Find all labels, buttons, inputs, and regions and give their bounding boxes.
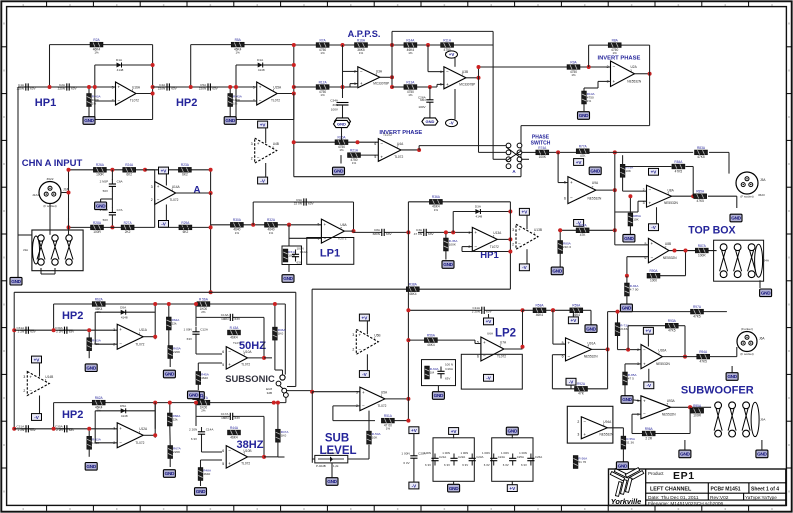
svg-text:(F socket): (F socket) — [740, 352, 753, 356]
svg-text:−: − — [570, 196, 573, 201]
svg-text:2 N5P: 2 N5P — [100, 180, 109, 184]
svg-text:22k: 22k — [173, 418, 178, 422]
svg-text:SUBWOOFER: SUBWOOFER — [681, 385, 754, 397]
svg-text:−: − — [29, 388, 32, 393]
svg-text:2 2N: 2 2N — [18, 330, 25, 334]
svg-text:2: 2 — [23, 389, 25, 393]
svg-text:−: − — [257, 156, 260, 161]
svg-text:R93A: R93A — [668, 319, 677, 323]
svg-text:=: = — [116, 3, 118, 7]
svg-text:46K4: 46K4 — [427, 343, 435, 347]
svg-text:63V: 63V — [69, 428, 75, 432]
svg-text:‖: ‖ — [788, 22, 789, 26]
svg-text:7: 7 — [340, 226, 342, 230]
svg-text:NE5532N: NE5532N — [584, 354, 599, 358]
svg-text:2 2N: 2 2N — [18, 428, 25, 432]
svg-text:5: 5 — [222, 462, 224, 466]
svg-text:TOP BOX: TOP BOX — [688, 224, 735, 236]
svg-text:2 2N: 2 2N — [56, 428, 63, 432]
svg-text:7: 7 — [243, 452, 245, 456]
svg-text:1 00N: 1 00N — [460, 451, 468, 455]
svg-text:Product: Product — [648, 471, 664, 476]
svg-text:HP2: HP2 — [62, 310, 83, 322]
svg-text:+: + — [613, 79, 616, 84]
svg-text:1 00N: 1 00N — [442, 451, 450, 455]
svg-text:=: = — [163, 507, 165, 511]
svg-text:1%: 1% — [233, 102, 238, 106]
svg-text:GND: GND — [196, 489, 206, 494]
svg-text:R78A: R78A — [579, 224, 588, 228]
svg-text:‖: ‖ — [3, 396, 4, 400]
svg-text:6K2: 6K2 — [126, 173, 132, 177]
svg-text:U6A: U6A — [487, 332, 494, 336]
svg-text:+: + — [29, 374, 32, 379]
svg-text:1: 1 — [272, 146, 274, 150]
svg-text:Sheet 1 of 4: Sheet 1 of 4 — [751, 487, 779, 493]
svg-text:2: 2 — [151, 198, 153, 202]
svg-text:J5A: J5A — [760, 178, 766, 182]
svg-text:5: 5 — [318, 223, 320, 227]
svg-text:100 N: 100 N — [445, 363, 453, 367]
svg-text:3: 3 — [577, 433, 579, 437]
svg-text:1K0: 1K0 — [281, 434, 287, 438]
svg-text:−: − — [360, 69, 363, 74]
svg-text:GND: GND — [443, 262, 453, 267]
svg-text:R9A: R9A — [570, 60, 577, 64]
svg-text:R77A: R77A — [579, 145, 588, 149]
svg-text:TL072: TL072 — [135, 441, 144, 445]
svg-text:5: 5 — [222, 363, 224, 367]
svg-text:LP2: LP2 — [495, 328, 516, 340]
svg-text:−: − — [119, 342, 122, 347]
svg-text:1%: 1% — [352, 161, 357, 165]
svg-text:−: − — [568, 354, 571, 359]
svg-text:+: + — [643, 361, 646, 366]
svg-text:GND: GND — [590, 169, 600, 174]
svg-text:=: = — [537, 507, 539, 511]
svg-text:TL072: TL072 — [130, 99, 139, 103]
svg-text:1: 1 — [374, 337, 376, 341]
svg-text:+: + — [228, 362, 231, 367]
svg-text:CHN A INPUT: CHN A INPUT — [22, 158, 83, 169]
svg-text:GND: GND — [579, 113, 589, 118]
svg-text:‖: ‖ — [3, 115, 4, 119]
svg-text:1 00N: 1 00N — [184, 328, 192, 332]
svg-text:TL072: TL072 — [497, 354, 506, 358]
svg-text:=: = — [350, 507, 352, 511]
svg-text:C23A: C23A — [476, 455, 483, 459]
svg-text:1%: 1% — [386, 427, 391, 431]
svg-text:2K2: 2K2 — [125, 230, 131, 234]
svg-text:−: − — [228, 448, 231, 453]
svg-text:1%: 1% — [269, 231, 274, 235]
svg-text:GND: GND — [449, 486, 459, 491]
svg-text:TL072: TL072 — [383, 133, 392, 137]
svg-text:63V: 63V — [308, 201, 314, 205]
svg-text:R29A: R29A — [181, 221, 190, 225]
svg-text:7: 7 — [243, 353, 245, 357]
svg-text:3: 3 — [23, 375, 25, 379]
svg-text:6: 6 — [564, 196, 566, 200]
svg-text:=: = — [69, 507, 71, 511]
svg-text:1: 1 — [171, 188, 173, 192]
svg-text:=: = — [724, 507, 726, 511]
svg-text:C20A: C20A — [418, 452, 427, 456]
svg-text:4148: 4148 — [121, 315, 128, 319]
svg-text:−: − — [228, 349, 231, 354]
svg-text:100R: 100R — [93, 230, 101, 234]
svg-text:100R: 100R — [698, 253, 706, 257]
svg-text:=: = — [69, 3, 71, 7]
svg-text:+V: +V — [34, 357, 41, 362]
svg-text:D5A: D5A — [120, 404, 127, 408]
svg-text:TL072: TL072 — [394, 155, 403, 159]
svg-text:47K: 47K — [580, 154, 587, 158]
svg-text:3623: 3623 — [758, 193, 765, 197]
svg-text:‖: ‖ — [788, 302, 789, 306]
svg-text:6: 6 — [374, 142, 376, 146]
svg-text:(F socket): (F socket) — [740, 195, 753, 199]
svg-text:10K: 10K — [372, 436, 378, 440]
svg-text:−: − — [118, 98, 121, 103]
svg-text:+: + — [570, 180, 573, 185]
svg-text:47K5: 47K5 — [668, 329, 676, 333]
svg-text:R62A: R62A — [95, 297, 104, 301]
svg-text:1M: 1M — [430, 371, 435, 375]
svg-text:1%: 1% — [320, 93, 325, 97]
svg-text:GND: GND — [225, 118, 235, 123]
svg-text:+: + — [518, 227, 521, 232]
svg-text:TL072: TL072 — [490, 245, 499, 249]
svg-text:C25A: C25A — [517, 455, 524, 459]
svg-text:1: 1 — [630, 69, 632, 73]
svg-text:SUBSONIC: SUBSONIC — [225, 373, 275, 384]
svg-text:−: − — [380, 141, 383, 146]
svg-text:1: 1 — [132, 89, 134, 93]
svg-text:3: 3 — [512, 228, 514, 232]
svg-text:47K5: 47K5 — [693, 314, 701, 318]
svg-text:+V: +V — [509, 486, 516, 491]
svg-text:R83A: R83A — [697, 146, 706, 150]
svg-text:R14A: R14A — [406, 38, 415, 42]
svg-text:GND: GND — [761, 291, 771, 296]
svg-text:HP1: HP1 — [35, 97, 56, 109]
svg-text:2: 2 — [577, 420, 579, 424]
svg-text:+: + — [157, 184, 160, 189]
svg-text:GND: GND — [727, 374, 737, 379]
svg-text:R21A: R21A — [350, 149, 359, 153]
svg-text:R94A: R94A — [699, 350, 708, 354]
svg-text:1: 1 — [493, 235, 495, 239]
svg-text:1%: 1% — [587, 99, 592, 103]
svg-text:1%: 1% — [320, 51, 325, 55]
svg-text:50V: 50V — [103, 189, 108, 193]
svg-text:=: = — [163, 3, 165, 7]
svg-text:6K2: 6K2 — [182, 173, 188, 177]
svg-text:51 76: 51 76 — [578, 460, 586, 464]
svg-text:C21A: C21A — [439, 455, 446, 459]
svg-text:2: 2 — [637, 348, 639, 352]
svg-text:Date: Thu Dec 01, 2011: Date: Thu Dec 01, 2011 — [648, 495, 699, 501]
svg-text:1 00N: 1 00N — [501, 451, 509, 455]
svg-text:+: + — [483, 340, 486, 345]
svg-text:+V: +V — [449, 52, 455, 57]
svg-text:3: 3 — [151, 185, 153, 189]
svg-text:Filename: M1451V02SCH.sch2006: Filename: M1451V02SCH.sch2006 — [648, 501, 724, 507]
svg-text:GND: GND — [283, 276, 293, 281]
svg-text:3: 3 — [112, 85, 114, 89]
svg-text:LP1: LP1 — [320, 248, 340, 260]
svg-text:GND: GND — [680, 452, 690, 457]
svg-text:TL072: TL072 — [169, 198, 178, 202]
svg-text:46K4: 46K4 — [536, 313, 544, 317]
svg-text:HP2: HP2 — [62, 409, 83, 421]
svg-text:R51A: R51A — [384, 414, 393, 418]
svg-text:R13A: R13A — [406, 80, 415, 84]
svg-text:R59A: R59A — [572, 304, 581, 308]
svg-text:+V: +V — [576, 160, 583, 165]
svg-text:+V: +V — [260, 122, 267, 127]
svg-text:R 43A: R 43A — [230, 326, 240, 330]
svg-text:‖: ‖ — [788, 349, 789, 353]
svg-text:NE5532N: NE5532N — [662, 412, 677, 416]
svg-text:R11A: R11A — [443, 38, 452, 42]
svg-text:=: = — [584, 507, 586, 511]
svg-text:1K0: 1K0 — [278, 332, 284, 336]
svg-text:47 5: 47 5 — [628, 377, 634, 381]
svg-text:GND: GND — [337, 122, 346, 127]
svg-text:=: = — [22, 3, 24, 7]
svg-text:=: = — [584, 3, 586, 7]
svg-text:=: = — [631, 3, 633, 7]
svg-text:3: 3 — [356, 390, 358, 394]
svg-text:−: − — [259, 98, 262, 103]
svg-text:1 00N: 1 00N — [519, 451, 527, 455]
svg-text:=: = — [210, 507, 212, 511]
svg-text:R5A: R5A — [235, 38, 242, 42]
svg-text:GND: GND — [586, 326, 596, 331]
svg-text:21K 0: 21K 0 — [563, 245, 571, 249]
svg-text:GND: GND — [508, 429, 518, 434]
svg-text:6 3V: 6 3V — [503, 463, 509, 467]
svg-text:J9A: J9A — [760, 417, 766, 421]
svg-text:R24A: R24A — [125, 163, 134, 167]
svg-text:220K: 220K — [173, 350, 181, 354]
svg-text:1: 1 — [658, 352, 660, 356]
svg-text:1%: 1% — [94, 51, 99, 55]
svg-text:‖: ‖ — [788, 162, 789, 166]
svg-text:6K2: 6K2 — [183, 230, 189, 234]
svg-text:+: + — [583, 432, 586, 437]
svg-text:63V: 63V — [187, 337, 192, 341]
svg-text:J2A4: J2A4 — [32, 193, 39, 197]
svg-text:GND: GND — [189, 393, 199, 398]
svg-text:−: − — [323, 236, 326, 241]
svg-text:‖: ‖ — [3, 209, 4, 213]
svg-text:3: 3 — [253, 85, 255, 89]
svg-text:R 56A: R 56A — [199, 297, 209, 301]
svg-text:=: = — [256, 507, 258, 511]
svg-text:R58A: R58A — [536, 304, 545, 308]
svg-text:−: − — [613, 64, 616, 69]
svg-text:2 2N: 2 2N — [56, 330, 63, 334]
svg-text:1 00N: 1 00N — [482, 451, 490, 455]
svg-text:R7A: R7A — [319, 38, 326, 42]
svg-text:EP1: EP1 — [673, 470, 695, 482]
svg-text:+: + — [474, 230, 477, 235]
svg-text:C24A: C24A — [498, 455, 505, 459]
svg-text:J3A: J3A — [23, 248, 28, 252]
svg-text:TL072: TL072 — [241, 363, 250, 367]
svg-text:R95A: R95A — [693, 404, 702, 408]
svg-text:7: 7 — [666, 403, 668, 407]
svg-text:+: + — [119, 327, 122, 332]
svg-text:R26A: R26A — [96, 163, 105, 167]
svg-text:(Funker): (Funker) — [741, 327, 753, 331]
svg-text:R87A: R87A — [698, 244, 707, 248]
svg-text:J6A: J6A — [759, 337, 765, 341]
svg-text:10K: 10K — [625, 169, 631, 173]
svg-text:1%: 1% — [408, 93, 413, 97]
svg-text:PCB# M1451: PCB# M1451 — [711, 487, 741, 493]
svg-text:R16A: R16A — [357, 38, 366, 42]
svg-text:TL072: TL072 — [377, 404, 386, 408]
svg-text:2: 2 — [352, 348, 354, 352]
svg-text:=: = — [490, 507, 492, 511]
svg-text:R23A: R23A — [181, 163, 190, 167]
svg-text:−: − — [650, 255, 653, 260]
svg-text:=: = — [303, 507, 305, 511]
svg-text:GND: GND — [434, 393, 444, 398]
svg-text:=: = — [444, 3, 446, 7]
svg-text:‖: ‖ — [3, 68, 4, 72]
svg-text:4640: 4640 — [203, 472, 210, 476]
svg-text:P-40dB: P-40dB — [316, 464, 326, 468]
svg-text:1%: 1% — [359, 51, 364, 55]
svg-text:R2A: R2A — [93, 38, 100, 42]
svg-text:GND: GND — [552, 269, 562, 274]
svg-text:4148: 4148 — [476, 215, 483, 219]
svg-text:D3A: D3A — [475, 205, 482, 209]
svg-text:5: 5 — [374, 155, 376, 159]
svg-text:1%: 1% — [92, 102, 97, 106]
svg-text:63V: 63V — [171, 86, 177, 90]
svg-text:‖: ‖ — [3, 490, 4, 494]
svg-text:4148: 4148 — [258, 68, 265, 72]
svg-text:2: 2 — [643, 188, 645, 192]
svg-text:+: + — [446, 82, 449, 87]
svg-text:=: = — [397, 507, 399, 511]
svg-text:100R: 100R — [693, 414, 701, 418]
svg-text:GND: GND — [165, 471, 175, 476]
svg-text:47K5: 47K5 — [696, 199, 704, 203]
svg-text:1%: 1% — [613, 51, 618, 55]
svg-text:1 00N: 1 00N — [401, 452, 409, 456]
svg-text:3: 3 — [113, 427, 115, 431]
svg-text:R 57A: R 57A — [199, 396, 209, 400]
svg-text:R12A: R12A — [319, 80, 328, 84]
svg-text:47 0N: 47 0N — [414, 232, 422, 236]
svg-text:63V: 63V — [71, 86, 77, 90]
svg-text:+V: +V — [522, 210, 529, 215]
svg-text:+: + — [360, 81, 363, 86]
svg-text:22k: 22k — [172, 322, 177, 326]
svg-text:R97A: R97A — [693, 305, 702, 309]
svg-text:2 N2P: 2 N2P — [100, 208, 109, 212]
svg-text:R56A: R56A — [427, 334, 436, 338]
svg-text:‖: ‖ — [3, 349, 4, 353]
svg-text:3622: 3622 — [47, 177, 54, 181]
svg-text:NE5532N: NE5532N — [663, 256, 678, 260]
svg-text:R74A: R74A — [538, 146, 547, 150]
svg-text:1: 1 — [375, 73, 377, 77]
svg-text:LEFT CHANNEL: LEFT CHANNEL — [650, 487, 692, 493]
svg-text:SUB: SUB — [325, 433, 349, 445]
svg-text:4148: 4148 — [121, 414, 128, 418]
svg-text:−: − — [474, 244, 477, 249]
svg-text:−: − — [358, 347, 361, 352]
svg-text:INVERT PHASE: INVERT PHASE — [597, 55, 640, 61]
svg-text:‖: ‖ — [3, 256, 4, 260]
svg-text:6: 6 — [477, 354, 479, 358]
svg-text:GND: GND — [425, 119, 434, 124]
svg-text:100V: 100V — [331, 108, 339, 112]
svg-text:‖: ‖ — [3, 162, 4, 166]
svg-text:C22A: C22A — [458, 455, 465, 459]
svg-text:100K: 100K — [539, 155, 547, 159]
svg-text:63V: 63V — [69, 330, 75, 334]
svg-text:R27A: R27A — [124, 221, 133, 225]
svg-text:50V: 50V — [103, 218, 108, 222]
svg-text:+V: +V — [571, 318, 578, 323]
svg-text:6 3V: 6 3V — [462, 463, 468, 467]
svg-text:22 0N: 22 0N — [294, 201, 302, 205]
svg-text:2 2R: 2 2R — [645, 436, 652, 440]
svg-text:2%: 2% — [201, 310, 206, 314]
svg-text:7: 7 — [462, 73, 464, 77]
svg-text:1%: 1% — [408, 51, 413, 55]
svg-text:+: + — [358, 332, 361, 337]
svg-text:‖: ‖ — [788, 490, 789, 494]
svg-text:2: 2 — [512, 242, 514, 246]
svg-text:=: = — [537, 3, 539, 7]
svg-text:−: − — [362, 403, 365, 408]
svg-text:100R: 100R — [96, 173, 104, 177]
svg-text:A.P.P.S.: A.P.P.S. — [348, 29, 381, 39]
svg-text:GND: GND — [731, 216, 741, 221]
svg-text:4 7 00: 4 7 00 — [630, 288, 639, 292]
svg-text:D1A: D1A — [257, 58, 264, 62]
svg-text:-V: -V — [449, 121, 453, 126]
svg-text:‖: ‖ — [788, 396, 789, 400]
svg-text:100N: 100N — [297, 247, 304, 251]
svg-text:1: 1 — [273, 89, 275, 93]
svg-text:Rev:V02: Rev:V02 — [710, 495, 729, 501]
svg-text:NE5532N: NE5532N — [588, 197, 603, 201]
svg-text:1,2k: 1,2k — [333, 464, 339, 468]
svg-text:220K: 220K — [173, 450, 181, 454]
svg-text:GND: GND — [86, 365, 96, 370]
svg-text:1%: 1% — [236, 51, 241, 55]
svg-text:+: + — [118, 85, 121, 90]
svg-text:GND: GND — [165, 372, 175, 377]
svg-text:+V: +V — [651, 170, 658, 175]
svg-text:220N: 220N — [158, 86, 165, 90]
svg-text:R8A: R8A — [612, 39, 619, 43]
svg-text:TL072: TL072 — [135, 342, 144, 346]
svg-text:R38A: R38A — [409, 283, 418, 287]
svg-text:47K: 47K — [578, 392, 585, 396]
